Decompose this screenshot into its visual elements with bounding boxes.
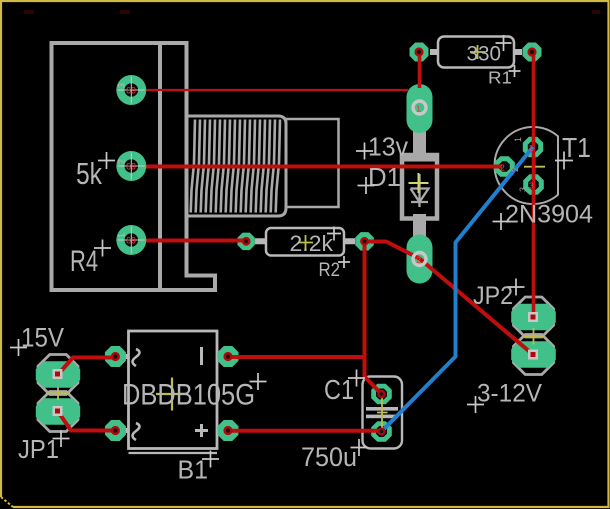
transistor T1 package outline <box>495 127 558 204</box>
bridge B1 plus pin mark <box>195 424 208 437</box>
resistor R2 pad 1 <box>237 233 255 251</box>
transistor T1 pad 3 <box>523 174 544 195</box>
wire B1 plus to C1 minus pad <box>228 429 382 433</box>
R1 pad2 hole <box>527 47 536 56</box>
B1 plus hole <box>223 426 232 435</box>
svg-text:69: 69 <box>126 86 136 96</box>
wire R2 pad2 to D1 cathode pad <box>365 242 420 259</box>
JP1 origin cross <box>46 387 70 400</box>
svg-text:JP2: JP2 <box>473 282 513 310</box>
bridge B1 AC squiggle marks <box>133 349 140 440</box>
resistor R1 pad 2 <box>523 43 542 62</box>
header JP2 pad 1 <box>511 304 556 330</box>
capacitor C1 body outline <box>363 377 403 449</box>
header JP1 pad 1 <box>36 361 80 388</box>
resistor R2 body outline <box>255 228 355 256</box>
C1 plus pad hole <box>377 390 385 398</box>
JP1 pad1 hole <box>53 369 63 379</box>
wire D1 cathode to JP2 pad2 <box>420 259 534 356</box>
wire T1 pin1 to C1 minus (bottom copper, blue) <box>382 147 534 432</box>
svg-text:69: 69 <box>126 162 136 172</box>
R1 pad1 hole <box>414 47 423 56</box>
R2 value origin cross <box>298 235 313 250</box>
R1 value origin cross <box>470 45 485 59</box>
svg-text:3: 3 <box>518 187 528 192</box>
svg-text:750u: 750u <box>301 442 357 472</box>
potentiometer shaft outline <box>286 119 339 207</box>
svg-text:2: 2 <box>500 163 505 173</box>
header JP1 outline <box>38 355 78 395</box>
JP2 pad1 hole <box>528 312 538 322</box>
svg-text:3: 3 <box>529 181 534 191</box>
svg-text:R1: R1 <box>488 68 512 88</box>
header JP1 pad 2 <box>36 398 80 425</box>
capacitor C1 minus pad <box>371 421 392 442</box>
svg-text:1: 1 <box>117 233 127 238</box>
B1 AC1 hole <box>111 352 120 361</box>
bridge rectifier B1 body outline <box>121 331 225 453</box>
resistor R2 pad 2 <box>355 232 374 251</box>
svg-text:13v: 13v <box>368 134 408 162</box>
resistor R1 body outline <box>430 37 522 68</box>
svg-text:R2: R2 <box>319 259 341 281</box>
svg-text:2: 2 <box>416 255 421 265</box>
svg-text:T1: T1 <box>562 132 591 163</box>
svg-text:3-12V: 3-12V <box>477 380 542 408</box>
potentiometer R4 threaded bushing outline <box>187 116 286 216</box>
transistor T1 pad 2 <box>494 156 515 177</box>
JP2 pad2 hole <box>528 350 538 360</box>
R2 pad1 hole <box>242 237 251 246</box>
B1 origin cross <box>156 378 189 411</box>
D1 top pad hole <box>413 101 426 114</box>
C1 origin cross <box>377 395 388 431</box>
pot R4 pad 3 <box>116 225 146 255</box>
bridge B1 minus pin mark <box>200 347 203 365</box>
capacitor C1 plates <box>366 407 398 418</box>
C1 minus pad hole <box>378 428 386 436</box>
pot R4 pad 2 <box>116 151 146 181</box>
svg-text:3: 3 <box>117 83 127 88</box>
wire pot pad1 to D1 anode <box>131 89 408 91</box>
svg-text:69: 69 <box>126 236 136 246</box>
wire R1 pad2 through T1 to JP2 pad1 <box>532 52 536 317</box>
bridge B1 pad plus <box>218 420 239 441</box>
B1 AC2 hole <box>111 426 120 435</box>
svg-text:1: 1 <box>513 137 523 142</box>
capacitor C1 plus pad <box>371 384 392 404</box>
resistor R1 pad 1 <box>410 43 429 62</box>
B1 minus hole <box>223 352 232 361</box>
svg-text:2N3904: 2N3904 <box>505 201 593 229</box>
header JP2 outline <box>514 297 554 337</box>
bridge B1 pad minus <box>218 346 239 367</box>
potentiometer R4 body outline <box>52 43 216 290</box>
pot R4 pad 1 <box>116 75 146 105</box>
JP1 pad2 hole <box>53 406 63 416</box>
diode D1 body outline <box>402 130 437 238</box>
svg-text:R4: R4 <box>70 245 98 278</box>
svg-text:2: 2 <box>117 159 127 164</box>
T1 origin cross olive <box>524 156 545 177</box>
diode D1 bottom pad <box>407 235 433 284</box>
svg-text:330: 330 <box>467 42 502 66</box>
diode D1 top pad <box>407 84 433 133</box>
R2 pad2 hole <box>360 237 369 246</box>
D1 bottom pad hole <box>413 253 426 266</box>
wire JP1 pin1 to B1 AC1 <box>58 358 116 375</box>
wire R2 pad2 down to C1 plus pad <box>365 242 382 395</box>
svg-text:B1: B1 <box>178 457 209 485</box>
wire R1 pad1 down to D1 top pad <box>418 52 422 88</box>
wire B1 minus to vertical junction <box>228 355 365 359</box>
svg-text:D1: D1 <box>368 164 401 192</box>
svg-text:2.2k: 2.2k <box>290 231 335 256</box>
D1 origin cross <box>409 173 429 193</box>
JP2 origin cross <box>523 328 545 345</box>
svg-text:1: 1 <box>529 143 534 153</box>
svg-text:15V: 15V <box>21 323 64 353</box>
wire JP1 pin2 to B1 AC2 <box>58 412 116 431</box>
svg-text:DBDB105G: DBDB105G <box>122 379 255 412</box>
potentiometer thread hatching <box>191 120 280 213</box>
header JP2 pad 2 <box>511 341 556 368</box>
svg-text:1: 1 <box>416 104 421 114</box>
bridge B1 pad AC2 <box>105 420 126 441</box>
wire pot pad2 to T1 base <box>131 165 502 169</box>
transistor T1 pad 1 <box>523 137 543 157</box>
svg-text:2: 2 <box>510 167 520 172</box>
T1 pin silk digits <box>510 137 528 192</box>
bridge B1 pad AC1 <box>105 346 126 367</box>
diode D1 symbol <box>411 174 429 207</box>
wire pot pad3 to R2 pad1 <box>131 239 246 243</box>
faint drill marks top <box>24 10 600 14</box>
